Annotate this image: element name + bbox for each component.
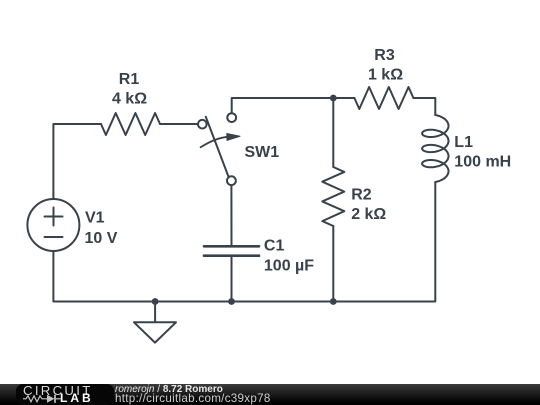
- svg-text:4 kΩ: 4 kΩ: [112, 91, 147, 108]
- label V1 value: [85, 210, 118, 248]
- wire: R3 to L1 top: [413, 98, 435, 115]
- svg-text:V1: V1: [85, 210, 105, 227]
- CircuitLab logo: [16, 384, 114, 405]
- node: junction bottom (C1): [228, 298, 235, 305]
- label R1 value: [112, 71, 147, 108]
- voltage source V1: [27, 199, 79, 251]
- svg-text:R3: R3: [374, 47, 395, 64]
- resistor R3: [354, 87, 413, 109]
- wire: SW1 bottom contact to C1: [230, 185, 232, 246]
- svg-text:SW1: SW1: [245, 144, 280, 161]
- capacitor C1: [204, 246, 259, 255]
- svg-text:L1: L1: [454, 134, 473, 151]
- wire: R2 top stub: [332, 98, 334, 167]
- inductor L1: [422, 115, 448, 182]
- label R3 value: [368, 47, 403, 84]
- resistor R1: [101, 113, 160, 135]
- footer text: [115, 385, 271, 404]
- node: junction bottom (ground): [152, 298, 159, 305]
- wire: junction to R3: [333, 97, 354, 99]
- wire: V1 top up and right to R1: [53, 124, 101, 200]
- svg-text:R2: R2: [351, 187, 372, 204]
- ground: [134, 302, 176, 343]
- svg-text:1 kΩ: 1 kΩ: [368, 67, 403, 84]
- wire: C1 to bottom net: [231, 256, 233, 302]
- label L1 value: [454, 134, 511, 171]
- resistor R2: [322, 167, 344, 226]
- wire: L1 bottom to bottom-right corner: [333, 182, 435, 302]
- wire: R2 bottom stub: [332, 226, 334, 302]
- node: junction top (R2/R3): [330, 95, 337, 102]
- switch SW1: [198, 113, 240, 185]
- svg-text:C1: C1: [264, 238, 285, 255]
- svg-text:R1: R1: [119, 71, 140, 88]
- label R2 value: [351, 187, 386, 224]
- footer bar: [0, 384, 540, 405]
- node: junction bottom right (R2): [330, 298, 337, 305]
- label C1 value: [264, 238, 314, 275]
- wire: R1 to SW1 pivot: [160, 123, 198, 125]
- wire: bottom net: [53, 251, 333, 302]
- svg-text:2 kΩ: 2 kΩ: [351, 206, 386, 223]
- svg-text:LAB: LAB: [60, 391, 94, 405]
- svg-text:100 µF: 100 µF: [264, 258, 314, 275]
- svg-text:100 mH: 100 mH: [454, 154, 511, 171]
- wire: SW1 top contact to top net: [232, 98, 334, 113]
- svg-text:10 V: 10 V: [85, 230, 118, 247]
